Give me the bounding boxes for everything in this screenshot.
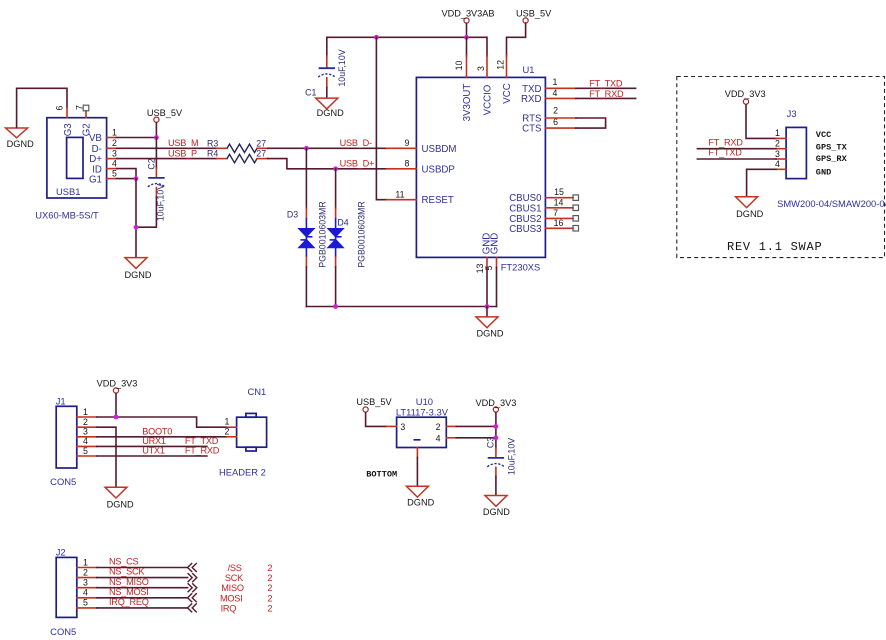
svg-text:1: 1 <box>224 417 229 427</box>
power port VDD_3V3 at J3 <box>725 89 766 104</box>
svg-text:FT_TXD: FT_TXD <box>185 436 219 446</box>
wire D- row to R3 <box>117 147 217 149</box>
svg-text:VDD_3V3: VDD_3V3 <box>725 89 766 99</box>
wire TXD net <box>576 87 636 89</box>
pin 5 GND <box>496 257 498 267</box>
pin 7 G2 no-connect <box>85 111 87 118</box>
svg-text:MOSI: MOSI <box>220 593 242 603</box>
wire U10 pin2 to VDD_3V3 <box>456 425 496 427</box>
wire VB to USB_5V node <box>117 137 157 139</box>
svg-text:2: 2 <box>83 567 88 577</box>
capacitor C3 <box>485 437 516 475</box>
resistor R3 <box>207 138 268 152</box>
ground DGND under C1 <box>316 98 344 118</box>
pin 5 G1 <box>107 178 117 180</box>
connector J1 <box>50 396 77 487</box>
svg-text:1: 1 <box>775 128 780 138</box>
svg-text:G1: G1 <box>89 174 102 185</box>
wire pin 4 to DGND <box>747 169 777 196</box>
svg-text:DGND: DGND <box>317 108 344 118</box>
connector CN1 header <box>219 386 267 478</box>
power port USB_5V at U10 <box>356 397 392 412</box>
svg-text:DGND: DGND <box>107 499 134 509</box>
pin 6 G3 <box>66 108 68 118</box>
svg-text:CON5: CON5 <box>50 626 76 637</box>
svg-text:DGND: DGND <box>124 270 151 280</box>
junction pin4 node <box>494 435 499 440</box>
svg-text:DGND: DGND <box>7 139 34 149</box>
wire VDD_3V3 to J3 pin 1 <box>746 105 776 139</box>
pin 1 VCC <box>776 137 786 139</box>
wire VDD_3V3 stem down <box>495 413 497 449</box>
connector USB1 <box>35 118 106 221</box>
power port VDD_3V3 at U10 <box>475 398 516 412</box>
pin 3 J1 <box>77 436 97 438</box>
svg-text:USB_D+: USB_D+ <box>340 159 375 169</box>
ground DGND at J3 <box>736 197 764 219</box>
svg-text:VDD_3V3AB: VDD_3V3AB <box>441 8 494 18</box>
svg-text:3: 3 <box>400 422 405 432</box>
svg-text:J2: J2 <box>56 547 66 558</box>
pin 1 J1 <box>77 416 97 418</box>
svg-text:1: 1 <box>112 127 117 137</box>
svg-text:FT_RXD: FT_RXD <box>185 446 220 456</box>
svg-text:4: 4 <box>553 88 558 98</box>
svg-text:J3: J3 <box>787 108 797 119</box>
off-page connector /SS <box>188 563 197 572</box>
pin 2 RTS <box>545 117 576 119</box>
wire C1 bottom to ground <box>326 78 328 88</box>
junction VDD_3V3 on pin1 <box>114 415 119 420</box>
svg-text:USB1: USB1 <box>56 186 81 197</box>
wire J1 pin5 UTX1 <box>97 455 207 457</box>
wire NS_MOSI <box>97 597 188 599</box>
svg-text:16: 16 <box>554 218 564 228</box>
svg-text:10uF,10V: 10uF,10V <box>506 438 516 475</box>
svg-text:U1: U1 <box>523 64 535 75</box>
wire C2 bottom to ID/G1 vertical <box>155 188 157 198</box>
svg-text:2: 2 <box>553 106 558 116</box>
wire G1 row <box>117 178 136 180</box>
off-page connector MISO <box>188 583 197 592</box>
svg-text:1: 1 <box>83 557 88 567</box>
junction D4 tap <box>333 166 338 171</box>
svg-text:USB_5V: USB_5V <box>356 397 392 407</box>
wire USB_5V stem to VB row <box>155 123 157 138</box>
svg-text:USB_M: USB_M <box>168 138 198 148</box>
svg-text:12: 12 <box>496 60 506 70</box>
regulator U10 LT1117-3.3V <box>396 396 449 447</box>
pin 3 U10 input <box>387 425 397 427</box>
svg-text:DGND: DGND <box>476 329 503 339</box>
wire USB_5V to U10 pin3 <box>366 413 387 427</box>
pin 3 GPS_RX <box>776 158 786 160</box>
svg-text:USB_D-: USB_D- <box>340 138 372 148</box>
svg-text:GND: GND <box>816 167 831 177</box>
wire G3 shield to DGND <box>17 88 67 127</box>
ground DGND under U1 <box>476 317 504 339</box>
svg-text:BOOT0: BOOT0 <box>142 426 172 436</box>
svg-text:CBUS1: CBUS1 <box>509 203 541 214</box>
wire D3 to ground rail <box>305 267 307 307</box>
capacitor C2 <box>146 158 165 221</box>
svg-text:VCCIO: VCCIO <box>483 84 494 115</box>
pin GND U10 bottom <box>416 448 418 458</box>
pin 3 J2 <box>77 587 97 589</box>
svg-text:C2: C2 <box>146 158 156 169</box>
svg-text:VB: VB <box>89 133 102 144</box>
ground DGND top-left <box>6 128 34 149</box>
svg-text:SCK: SCK <box>225 573 244 583</box>
svg-text:PGB0010603MR: PGB0010603MR <box>357 201 367 268</box>
wire D+ row to R4 <box>117 158 217 160</box>
svg-text:2: 2 <box>775 139 780 149</box>
svg-text:4: 4 <box>83 588 88 598</box>
wire USB_5V to VCC <box>507 23 526 56</box>
pin 4 J1 <box>77 445 97 447</box>
pin 8 USBDP <box>387 168 417 170</box>
ground DGND under U10 <box>406 486 434 507</box>
connector J3 <box>777 108 886 209</box>
wire D4 to ground rail <box>335 267 337 307</box>
svg-text:7: 7 <box>75 105 85 110</box>
wire IRQ_REQ <box>97 607 188 609</box>
svg-text:CTS: CTS <box>522 124 542 135</box>
junction GND on rail <box>485 304 490 309</box>
op-amp U1 FT230XS body <box>416 64 545 273</box>
off-page connector SCK <box>188 573 197 582</box>
power port USB_5V at USB1 <box>147 108 183 122</box>
svg-text:IRQ: IRQ <box>221 603 237 613</box>
svg-text:2: 2 <box>112 138 117 148</box>
svg-text:FT230XS: FT230XS <box>501 262 541 273</box>
svg-text:6: 6 <box>55 105 65 110</box>
pin 1 VB <box>107 137 117 139</box>
capacitor C1 <box>305 49 347 97</box>
svg-text:5: 5 <box>484 265 494 270</box>
wire G1 down to ground <box>135 179 137 258</box>
ground DGND under USB1 <box>124 258 151 280</box>
svg-text:4: 4 <box>436 433 441 443</box>
wire rail to 3V3OUT pin <box>466 37 468 56</box>
pin 3 VCCIO <box>486 55 488 77</box>
wire rail down to C1 <box>326 37 328 56</box>
svg-text:USB_P: USB_P <box>168 149 197 159</box>
svg-text:UX60-MB-5S/T: UX60-MB-5S/T <box>35 210 99 221</box>
svg-text:GND: GND <box>490 233 501 255</box>
svg-text:3: 3 <box>775 149 780 159</box>
wire R3 to USBDM <box>268 147 387 149</box>
svg-text:9: 9 <box>405 138 410 148</box>
svg-text:3V3OUT: 3V3OUT <box>462 84 473 122</box>
pin 3 D+ <box>107 158 117 160</box>
wire U10 pin4 to VDD_3V3 <box>456 437 496 439</box>
wire rail to DGND <box>486 307 488 317</box>
pin 12 VCC <box>506 55 508 77</box>
svg-text:VDD_3V3: VDD_3V3 <box>97 378 138 388</box>
svg-text:27: 27 <box>256 138 266 148</box>
wire U10 tab to DGND <box>416 458 418 487</box>
svg-text:6: 6 <box>553 117 558 127</box>
svg-text:4: 4 <box>83 436 88 446</box>
off-page connector MOSI <box>188 593 197 602</box>
junction RESET pullup tap <box>374 35 379 40</box>
wire RTS-CTS loop <box>576 118 606 128</box>
svg-text:USB_5V: USB_5V <box>516 8 552 18</box>
svg-text:RESET: RESET <box>422 195 454 206</box>
pin 11 RESET <box>387 199 417 201</box>
power port USB_5V top <box>516 8 552 23</box>
junction D4 on rail <box>333 304 338 309</box>
pin 1 CN1 <box>227 426 237 428</box>
svg-text:D3: D3 <box>287 210 298 220</box>
svg-text:FT_TXD: FT_TXD <box>589 78 623 88</box>
svg-text:/SS: /SS <box>228 563 242 573</box>
svg-text:J1: J1 <box>56 396 66 407</box>
wire C3 to DGND <box>495 467 497 476</box>
wire 3V3 top rail <box>327 37 487 56</box>
pin 13 GND <box>486 257 488 267</box>
wire NS_CS <box>97 567 188 569</box>
svg-text:CBUS3: CBUS3 <box>509 224 541 235</box>
svg-text:SMW200-04/SMAW200-04: SMW200-04/SMAW200-04 <box>777 198 886 209</box>
svg-text:R3: R3 <box>207 138 218 148</box>
pin 5 J2 <box>77 607 97 609</box>
wire NS_MISO <box>97 587 188 589</box>
wire VDD_3V3AB stem <box>466 24 468 38</box>
svg-text:3: 3 <box>83 427 88 437</box>
svg-text:NS_MISO: NS_MISO <box>109 577 149 587</box>
svg-text:DGND: DGND <box>483 507 510 517</box>
wire RESET pullup vertical <box>376 37 386 199</box>
svg-text:NS_MOSI: NS_MOSI <box>109 587 149 597</box>
junction VDD_3V3AB on rail <box>464 35 469 40</box>
pin 2 U10 output <box>446 425 456 427</box>
svg-text:2: 2 <box>267 603 272 613</box>
svg-text:8: 8 <box>405 158 410 168</box>
svg-text:HEADER 2: HEADER 2 <box>219 467 266 478</box>
pin 4 GND <box>776 168 786 170</box>
junction D3 tap <box>304 146 309 151</box>
svg-text:2: 2 <box>267 583 272 593</box>
svg-text:3: 3 <box>112 148 117 158</box>
wire J1 pin2 to DGND <box>97 427 116 487</box>
svg-text:15: 15 <box>554 187 564 197</box>
pin 2 J2 <box>77 577 97 579</box>
svg-text:5: 5 <box>83 598 88 608</box>
svg-text:RXD: RXD <box>521 94 541 105</box>
svg-text:VDD_3V3: VDD_3V3 <box>475 398 516 408</box>
svg-text:IRQ_REQ: IRQ_REQ <box>109 597 149 607</box>
svg-text:14: 14 <box>554 197 564 207</box>
diode D3 <box>287 148 327 267</box>
pin 15 CBUS0 <box>545 197 573 199</box>
svg-text:2: 2 <box>83 417 88 427</box>
svg-text:URX1: URX1 <box>142 436 166 446</box>
pin 9 USBDM <box>387 147 417 149</box>
pin 4 U10 output <box>446 437 456 439</box>
svg-text:USB_5V: USB_5V <box>147 108 183 118</box>
svg-text:4: 4 <box>775 159 780 169</box>
svg-text:REV 1.1 SWAP: REV 1.1 SWAP <box>727 240 822 254</box>
pin 2 J1 <box>77 426 97 428</box>
resistor R4 <box>207 149 268 163</box>
svg-text:NS_SCK: NS_SCK <box>109 567 145 577</box>
wire RXD net <box>576 97 636 99</box>
power port VDD_3V3AB <box>441 8 494 23</box>
svg-text:C1: C1 <box>305 88 316 98</box>
junction VB/USB_5V/C2 <box>154 135 159 140</box>
pin 4 ID <box>107 168 117 170</box>
svg-text:R4: R4 <box>207 149 218 159</box>
wire R4 jog to USBDP <box>268 159 387 169</box>
junction G1 node <box>134 176 139 181</box>
svg-text:GPS_RX: GPS_RX <box>816 154 848 164</box>
pin 6 CTS <box>545 127 576 129</box>
svg-text:2: 2 <box>267 563 272 573</box>
pin 2 CN1 <box>227 436 237 438</box>
power port VDD_3V3 at J1 <box>97 378 138 393</box>
pin 14 CBUS1 <box>545 207 573 209</box>
svg-text:3: 3 <box>83 578 88 588</box>
svg-text:C3: C3 <box>485 437 495 448</box>
dashed revision box <box>677 77 885 258</box>
pin 10 3V3OUT <box>466 55 468 77</box>
svg-text:2: 2 <box>267 573 272 583</box>
svg-text:BOTTOM: BOTTOM <box>366 470 397 480</box>
pin 2 D- <box>107 147 117 149</box>
svg-text:1: 1 <box>83 407 88 417</box>
ground DGND at J1 <box>105 487 134 509</box>
svg-text:27: 27 <box>256 149 266 159</box>
wire VDD_3V3 stem to pin1 <box>115 394 117 418</box>
svg-text:USBDM: USBDM <box>422 144 457 155</box>
svg-text:11: 11 <box>395 189 404 199</box>
svg-text:D4: D4 <box>337 218 348 228</box>
svg-text:PGB0010603MR: PGB0010603MR <box>317 201 327 268</box>
pin 4 RXD <box>545 97 576 99</box>
svg-text:USBDP: USBDP <box>422 164 455 175</box>
svg-text:NS_CS: NS_CS <box>109 557 139 567</box>
junction C2 return <box>134 225 139 230</box>
svg-text:2: 2 <box>436 422 441 432</box>
svg-text:GPS_TX: GPS_TX <box>816 143 848 153</box>
svg-text:7: 7 <box>553 208 558 218</box>
svg-text:2: 2 <box>267 593 272 603</box>
svg-text:4: 4 <box>112 158 117 168</box>
ground DGND under C3 <box>483 496 510 518</box>
svg-text:CON5: CON5 <box>50 476 76 487</box>
pin 2 GPS_TX <box>776 148 786 150</box>
junction pin2 node <box>494 424 499 429</box>
svg-text:VCC: VCC <box>816 130 831 140</box>
svg-text:3: 3 <box>476 66 486 71</box>
svg-text:G3: G3 <box>63 123 74 136</box>
wire down to C2 <box>155 138 157 169</box>
svg-text:10uF,10V: 10uF,10V <box>337 49 347 86</box>
wire J1 pin4 URX1 <box>97 445 207 447</box>
svg-text:2: 2 <box>224 426 229 436</box>
svg-text:FT_RXD: FT_RXD <box>589 89 624 99</box>
svg-text:FT_RXD: FT_RXD <box>708 137 743 147</box>
pin 16 CBUS3 <box>545 227 573 229</box>
pin 4 J2 <box>77 597 97 599</box>
off-page connector IRQ <box>188 603 197 612</box>
svg-text:UTX1: UTX1 <box>142 446 165 456</box>
svg-text:MISO: MISO <box>221 583 244 593</box>
svg-text:FT_TXD: FT_TXD <box>708 148 742 158</box>
wire FT_TXD to pin 3 <box>697 158 776 160</box>
pin 1 J2 <box>77 567 97 569</box>
svg-text:1: 1 <box>553 77 558 87</box>
svg-text:5: 5 <box>83 446 88 456</box>
wire GND pins down <box>486 267 488 306</box>
wire FT_RXD to pin 2 <box>697 148 776 150</box>
svg-text:10: 10 <box>454 61 464 71</box>
pin 1 TXD <box>545 87 576 89</box>
wire J1 pin3 BOOT0 to CN1 pin2 <box>97 436 227 438</box>
wire J1 pin1 to CN1 pin1 <box>97 417 227 427</box>
svg-text:DGND: DGND <box>736 209 763 219</box>
diode D4 <box>327 169 367 268</box>
wire NS_SCK <box>97 577 188 579</box>
svg-text:5: 5 <box>112 168 117 178</box>
pin 7 CBUS2 <box>545 217 573 219</box>
svg-text:VCC: VCC <box>502 83 513 103</box>
connector J2 <box>50 547 77 638</box>
svg-text:LT1117-3.3V: LT1117-3.3V <box>396 406 449 417</box>
svg-text:DGND: DGND <box>407 498 434 508</box>
wire ID down to G1 <box>117 169 136 179</box>
pin 5 J1 <box>77 455 97 457</box>
wire ground rail <box>306 306 496 308</box>
svg-text:CN1: CN1 <box>248 386 267 397</box>
